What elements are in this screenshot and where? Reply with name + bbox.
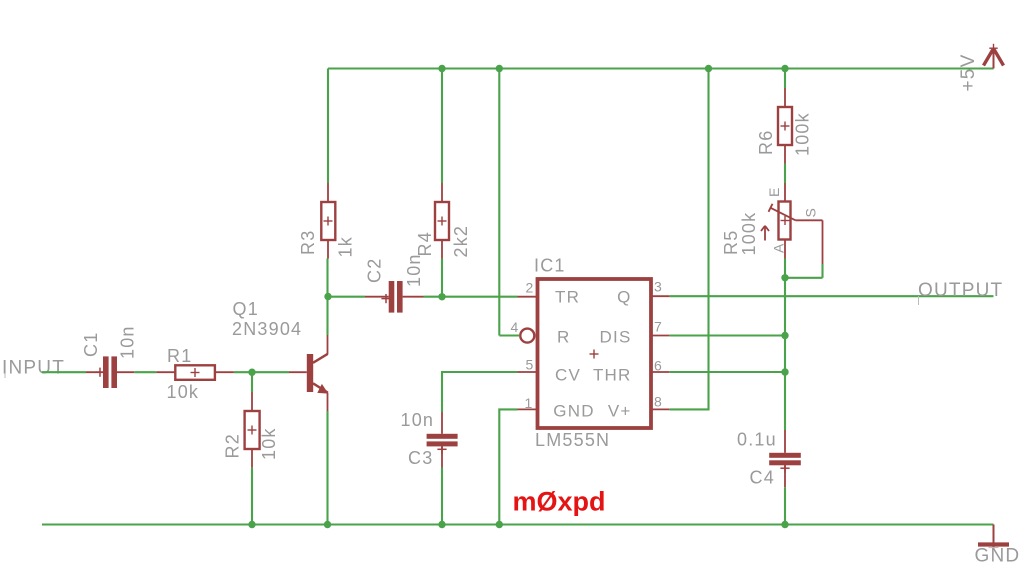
capacitor C3 [427, 412, 458, 468]
IC1 origin cross [590, 350, 599, 359]
node junction R6 top [781, 65, 788, 72]
ground label origin tick [989, 547, 999, 549]
svg-text:10k: 10k [259, 427, 279, 460]
svg-text:100k: 100k [739, 212, 759, 256]
svg-text:THR: THR [593, 365, 632, 384]
wire DIS net pin 7 to R5 line [670, 334, 785, 336]
svg-text:10n: 10n [118, 325, 138, 359]
pin 6 THR stub [652, 371, 670, 373]
node junction R4 top [438, 65, 445, 72]
wire GND net: pin 1 to ground rail [499, 409, 517, 524]
svg-text:2k2: 2k2 [451, 225, 471, 258]
svg-text:R6: R6 [756, 130, 776, 155]
node junction R2 bottom [248, 521, 255, 528]
svg-text:A: A [771, 242, 787, 253]
svg-text:+5V: +5V [958, 54, 979, 92]
resistor R3 [321, 69, 335, 259]
svg-text:10k: 10k [167, 382, 200, 402]
op-amp IC1 box (LM555N) [538, 279, 652, 428]
svg-text:7: 7 [654, 319, 663, 335]
wire top +5V rail [328, 67, 994, 69]
node junction C3 bottom [438, 521, 445, 528]
svg-text:LM555N: LM555N [535, 430, 610, 450]
svg-text:R5: R5 [721, 230, 741, 255]
svg-text:10n: 10n [404, 253, 424, 287]
wire Q1 emitter to ground rail [326, 411, 328, 525]
wire C2 to TR junction and pin 2 [424, 296, 518, 298]
svg-text:C2: C2 [365, 258, 385, 283]
svg-text:TR: TR [555, 288, 580, 307]
pin 2 TR stub [518, 296, 537, 298]
svg-text:2: 2 [526, 279, 535, 295]
node junction DIS [781, 332, 788, 339]
node junction V+ line top [705, 65, 712, 72]
wire output net pin 3 to OUTPUT [670, 295, 994, 297]
svg-text:V+: V+ [608, 402, 632, 421]
node junction Q1 emitter bottom [324, 521, 331, 528]
wire CV net: C3 top to pin 5 [442, 372, 518, 412]
transistor Q1 [289, 335, 328, 411]
svg-text:1k: 1k [336, 236, 356, 257]
pin 4 R bubble [520, 329, 534, 343]
capacitor C4 [769, 430, 801, 487]
svg-text:mØxpd: mØxpd [513, 487, 606, 517]
svg-text:R4: R4 [415, 231, 435, 256]
svg-text:C4: C4 [750, 468, 775, 488]
node junction IC gnd bottom [496, 521, 503, 528]
resistor R2 [245, 392, 260, 468]
pin 8 V+ stub [652, 408, 670, 410]
svg-text:OUTPUT: OUTPUT [918, 280, 1003, 301]
svg-text:3: 3 [654, 279, 663, 295]
svg-text:E: E [766, 186, 782, 197]
svg-text:C3: C3 [408, 448, 433, 468]
capacitor C2 [365, 281, 424, 313]
svg-text:DIS: DIS [600, 327, 632, 346]
svg-text:4: 4 [511, 319, 520, 335]
resistor R4 [435, 69, 449, 259]
net label OUTPUT origin tick [918, 296, 920, 305]
power +5V symbol arrow [984, 44, 1004, 69]
wire V+ net pin 8 up to top rail [670, 69, 709, 410]
svg-text:R2: R2 [223, 433, 243, 458]
pin 3 Q stub [652, 295, 670, 297]
wire C4 to ground rail [784, 487, 786, 524]
wire THR net pin 6 to R5 line [670, 371, 785, 373]
node junction C4 bottom [781, 521, 788, 528]
node junction R4 / TR [438, 293, 445, 300]
svg-text:CV: CV [555, 365, 581, 384]
wire R4 down to TR net [441, 259, 443, 297]
svg-text:10n: 10n [401, 410, 435, 430]
svg-text:2N3904: 2N3904 [232, 319, 302, 339]
node junction R1/R2/base [248, 369, 255, 376]
wire C3 to ground rail [441, 468, 443, 525]
capacitor C1 [86, 356, 134, 388]
wire junction down to R2 [251, 372, 253, 392]
wire R1 to base junction [234, 371, 252, 373]
svg-text:6: 6 [654, 357, 663, 373]
svg-text:1: 1 [525, 395, 534, 411]
wire reset net from top rail down [498, 69, 500, 336]
resistor R6 [778, 69, 792, 164]
node junction collector / C2 [324, 293, 331, 300]
svg-text:5: 5 [526, 356, 535, 372]
node junction THR [781, 368, 788, 375]
wire R5 bottom to DIS/THR line [784, 259, 786, 431]
wire R6 to R5 [784, 164, 786, 184]
wire reset net to pin 4 bubble [499, 334, 519, 336]
wire Q1 collector up [326, 259, 328, 336]
wire junction to Q1 base [252, 371, 289, 373]
svg-text:R1: R1 [167, 346, 192, 366]
svg-text:GND: GND [553, 402, 594, 421]
svg-text:S: S [803, 207, 819, 218]
ground symbol GND [978, 525, 1009, 549]
wire collector junction to C2 [328, 296, 365, 298]
pin 1 GND stub [518, 408, 537, 410]
svg-text:C1: C1 [81, 332, 101, 357]
svg-text:R: R [557, 327, 570, 346]
svg-text:GND: GND [975, 546, 1021, 567]
wire bottom ground rail [42, 523, 994, 525]
potentiometer R5 [761, 183, 796, 259]
pin 7 DIS stub [652, 335, 670, 337]
svg-text:Q1: Q1 [233, 299, 259, 319]
svg-text:100k: 100k [793, 112, 813, 156]
svg-text:IC1: IC1 [534, 256, 566, 276]
resistor R1 [156, 365, 234, 380]
net label INPUT origin tick [4, 366, 6, 378]
pin 5 CV stub [518, 371, 537, 373]
wire C1 to R1 [134, 371, 156, 373]
wire input net [42, 371, 86, 373]
node junction reset-line top [496, 65, 503, 72]
wire R2 to ground rail [251, 468, 253, 525]
svg-text:INPUT: INPUT [2, 358, 65, 379]
node junction R5 bottom / wiper [781, 274, 788, 281]
svg-text:R3: R3 [298, 230, 318, 255]
svg-text:8: 8 [654, 394, 663, 410]
wire wiper S loop [785, 220, 823, 277]
svg-text:0.1u: 0.1u [737, 430, 777, 450]
svg-text:Q: Q [617, 288, 631, 307]
